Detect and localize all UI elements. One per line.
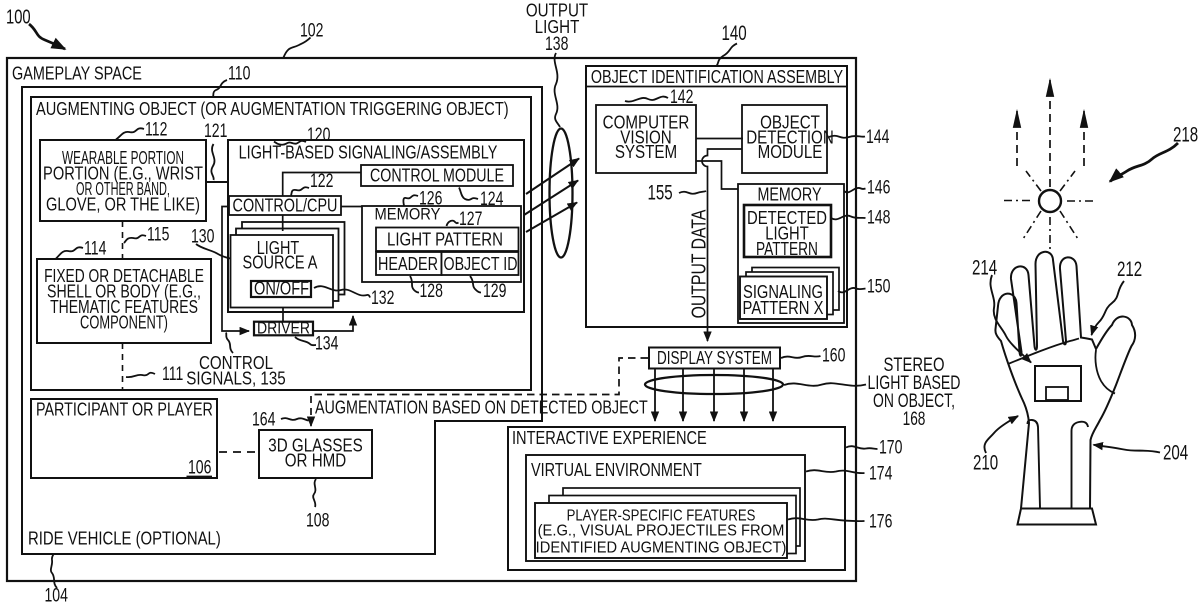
svg-text:DRIVER: DRIVER bbox=[257, 319, 310, 338]
svg-text:214: 214 bbox=[972, 255, 997, 279]
svg-text:128: 128 bbox=[420, 280, 443, 302]
svg-text:176: 176 bbox=[869, 510, 892, 532]
svg-text:OR HMD: OR HMD bbox=[285, 450, 346, 471]
svg-text:120: 120 bbox=[307, 124, 330, 146]
svg-text:102: 102 bbox=[300, 19, 323, 41]
svg-text:PATTERN: PATTERN bbox=[756, 239, 818, 259]
svg-text:SYSTEM: SYSTEM bbox=[615, 142, 677, 163]
svg-text:170: 170 bbox=[879, 436, 902, 458]
svg-text:SIGNALS, 135: SIGNALS, 135 bbox=[186, 368, 285, 389]
svg-text:130: 130 bbox=[191, 225, 214, 247]
svg-text:132: 132 bbox=[371, 287, 394, 309]
svg-text:210: 210 bbox=[973, 450, 998, 474]
svg-text:CONTROL/CPU: CONTROL/CPU bbox=[233, 195, 338, 216]
svg-text:MODULE: MODULE bbox=[758, 142, 823, 163]
svg-text:(E.G., VISUAL PROJECTILES FROM: (E.G., VISUAL PROJECTILES FROM bbox=[538, 522, 785, 540]
svg-text:PARTICIPANT OR PLAYER: PARTICIPANT OR PLAYER bbox=[36, 399, 213, 420]
svg-text:111: 111 bbox=[162, 363, 183, 385]
svg-text:160: 160 bbox=[822, 344, 845, 366]
svg-text:126: 126 bbox=[419, 187, 442, 209]
svg-text:GLOVE, OR THE LIKE): GLOVE, OR THE LIKE) bbox=[46, 194, 200, 215]
svg-text:174: 174 bbox=[869, 462, 892, 484]
svg-text:VIRTUAL ENVIRONMENT: VIRTUAL ENVIRONMENT bbox=[531, 459, 702, 480]
svg-text:148: 148 bbox=[867, 206, 890, 228]
svg-text:108: 108 bbox=[306, 509, 329, 531]
svg-text:121: 121 bbox=[204, 120, 227, 142]
svg-text:COMPONENT): COMPONENT) bbox=[80, 313, 168, 333]
svg-text:134: 134 bbox=[315, 332, 338, 354]
svg-text:AUGMENTATION BASED ON DETECTED: AUGMENTATION BASED ON DETECTED OBJECT bbox=[315, 397, 648, 418]
svg-text:INTERACTIVE EXPERIENCE: INTERACTIVE EXPERIENCE bbox=[512, 427, 707, 448]
svg-text:RIDE VEHICLE (OPTIONAL): RIDE VEHICLE (OPTIONAL) bbox=[28, 528, 221, 549]
svg-text:164: 164 bbox=[252, 408, 275, 430]
svg-text:146: 146 bbox=[867, 176, 890, 198]
svg-text:MEMORY: MEMORY bbox=[758, 184, 822, 205]
svg-text:IDENTIFIED AUGMENTING OBJECT): IDENTIFIED AUGMENTING OBJECT) bbox=[536, 539, 787, 557]
svg-text:PATTERN X: PATTERN X bbox=[743, 297, 824, 318]
svg-text:129: 129 bbox=[483, 280, 506, 302]
svg-text:155: 155 bbox=[648, 180, 673, 204]
svg-text:142: 142 bbox=[670, 86, 693, 108]
svg-text:115: 115 bbox=[147, 223, 169, 245]
svg-text:168: 168 bbox=[903, 408, 926, 430]
svg-text:204: 204 bbox=[1163, 440, 1188, 464]
svg-text:106: 106 bbox=[188, 456, 211, 478]
svg-text:112: 112 bbox=[145, 118, 167, 140]
svg-text:LIGHT PATTERN: LIGHT PATTERN bbox=[387, 229, 503, 250]
svg-text:150: 150 bbox=[867, 275, 890, 297]
svg-text:122: 122 bbox=[310, 170, 333, 192]
svg-text:AUGMENTING OBJECT (OR AUGMENTA: AUGMENTING OBJECT (OR AUGMENTATION TRIGG… bbox=[36, 98, 509, 119]
svg-text:OBJECT ID: OBJECT ID bbox=[444, 254, 518, 274]
svg-text:OBJECT IDENTIFICATION ASSEMBLY: OBJECT IDENTIFICATION ASSEMBLY bbox=[591, 66, 843, 87]
svg-text:114: 114 bbox=[84, 237, 106, 259]
svg-text:OUTPUT DATA: OUTPUT DATA bbox=[688, 210, 710, 319]
svg-text:127: 127 bbox=[459, 208, 482, 230]
svg-text:HEADER: HEADER bbox=[378, 253, 438, 274]
svg-text:140: 140 bbox=[722, 20, 747, 44]
svg-text:SOURCE A: SOURCE A bbox=[243, 252, 319, 273]
svg-text:212: 212 bbox=[1117, 256, 1142, 280]
svg-text:100: 100 bbox=[6, 5, 31, 28]
svg-text:110: 110 bbox=[228, 62, 250, 84]
svg-text:GAMEPLAY SPACE: GAMEPLAY SPACE bbox=[12, 63, 142, 84]
svg-text:124: 124 bbox=[480, 188, 503, 210]
svg-text:ON/OFF: ON/OFF bbox=[254, 278, 309, 299]
svg-text:CONTROL MODULE: CONTROL MODULE bbox=[370, 166, 504, 186]
svg-text:LIGHT-BASED SIGNALING/ASSEMBLY: LIGHT-BASED SIGNALING/ASSEMBLY bbox=[239, 142, 498, 163]
svg-text:138: 138 bbox=[545, 33, 568, 55]
svg-text:144: 144 bbox=[866, 126, 889, 148]
svg-text:DISPLAY SYSTEM: DISPLAY SYSTEM bbox=[657, 348, 772, 369]
